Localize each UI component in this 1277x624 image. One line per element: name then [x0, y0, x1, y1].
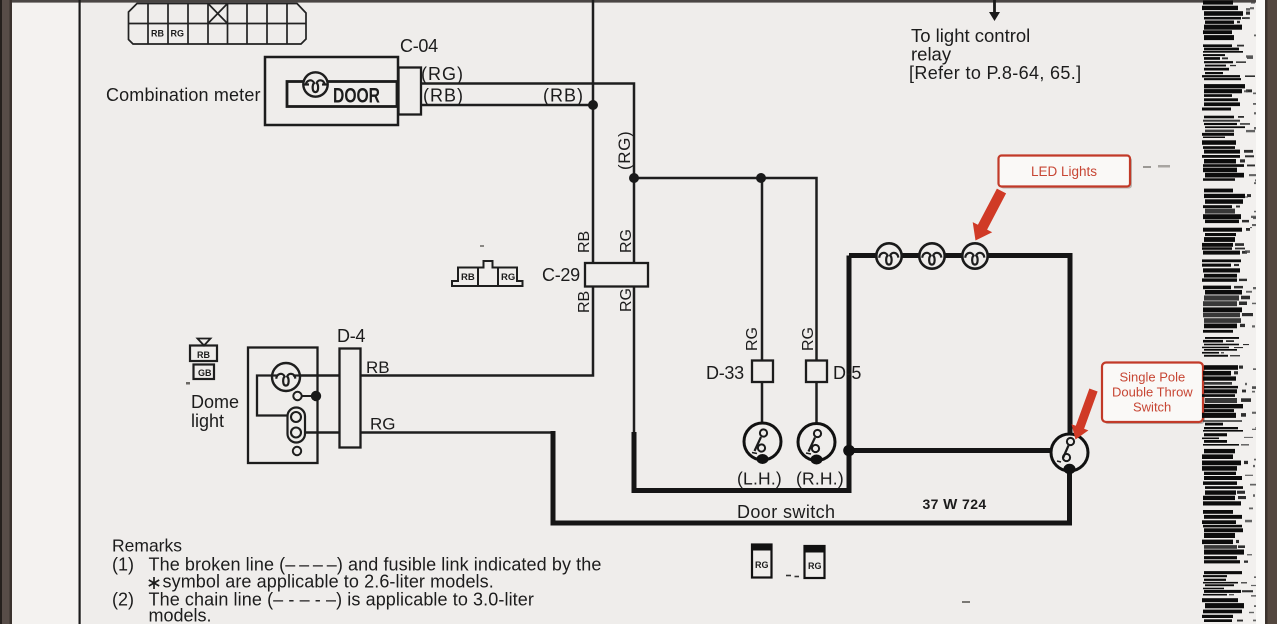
door switch RH: [798, 424, 835, 465]
scan noise strip: [1202, 1, 1262, 623]
LED bulb 1: [876, 243, 901, 268]
wire RG horizontal branch to door switches: [634, 178, 817, 424]
dome light off contact: [293, 447, 301, 455]
door switch LH: [744, 423, 781, 464]
DOOR indicator box: [287, 82, 397, 107]
svg-text:DOOR: DOOR: [333, 85, 380, 108]
node junction SPDT net: [843, 445, 855, 457]
svg-text:RG: RG: [755, 560, 769, 570]
svg-text:GB: GB: [198, 368, 212, 378]
dome light door contact: [293, 392, 301, 400]
stray dashes: [786, 575, 791, 577]
wire thick bottom ground run under door switches: [632, 256, 850, 491]
svg-text:(RB): (RB): [543, 86, 584, 106]
svg-text:RB: RB: [366, 358, 390, 377]
svg-text:37 W 724: 37 W 724: [923, 496, 987, 513]
annotation arrow LED Lights: [973, 189, 1006, 241]
svg-text:light: light: [191, 411, 224, 431]
asterisk symbol: [149, 577, 159, 589]
wire thick RG lower vertical: [632, 432, 637, 491]
dome light box: [248, 348, 318, 464]
svg-text:models.: models.: [149, 606, 212, 624]
svg-text:(L.H.): (L.H.): [737, 469, 782, 489]
svg-text:D-5: D-5: [833, 363, 861, 383]
dome light bulb: [272, 363, 300, 391]
svg-text:Door switch: Door switch: [737, 502, 835, 522]
wire thick top run to LED lights: [849, 256, 1070, 438]
connector RG (bottom left): [751, 544, 773, 578]
LED bulb 3: [962, 243, 987, 268]
svg-text:C-29: C-29: [542, 265, 580, 285]
annotation arrow SPDT: [1072, 389, 1098, 440]
svg-text:RG: RG: [618, 288, 635, 312]
svg-text:(2): (2): [112, 590, 134, 610]
connector D-33: [752, 361, 773, 383]
connector C-29: [585, 263, 648, 287]
svg-text:RB: RB: [576, 291, 593, 313]
dome light switch: [288, 408, 306, 443]
connector icon beside C-29: [452, 261, 523, 286]
svg-text:(RB): (RB): [423, 86, 464, 106]
svg-text:Single Pole: Single Pole: [1120, 370, 1186, 385]
svg-text:RG: RG: [501, 272, 515, 283]
connector RB (dome light): [190, 346, 217, 362]
wire RB from C-04: [421, 104, 593, 107]
svg-text:RB: RB: [576, 231, 593, 253]
node junction LH branch: [756, 173, 766, 183]
bright column near right edge: [1256, 0, 1265, 624]
arrow to light control relay: [993, 0, 996, 13]
svg-text:(RG): (RG): [615, 131, 634, 170]
svg-text:RG: RG: [618, 229, 635, 253]
svg-text:relay: relay: [911, 44, 952, 65]
svg-text:(R.H.): (R.H.): [796, 469, 844, 489]
page frame border line: [79, 0, 81, 624]
wire thick below SPDT to bottom run: [551, 468, 1070, 523]
svg-text:RG: RG: [744, 327, 761, 351]
SPDT switch: [1051, 434, 1088, 474]
wire branch to LH door switch: [761, 178, 764, 429]
svg-text:RG: RG: [800, 327, 817, 351]
wire thick SPDT pole feed: [849, 448, 1052, 453]
wire RG from dome switch to corner: [301, 431, 555, 434]
svg-text:RB: RB: [461, 272, 475, 283]
svg-text:Dome: Dome: [191, 392, 239, 412]
svg-text:D-4: D-4: [337, 326, 365, 346]
wire RG from C-04 to vertical run: [421, 84, 634, 434]
connector triangle above dome light: [198, 339, 211, 346]
connector pin grid (top): [129, 4, 307, 45]
connector D-4: [340, 349, 361, 448]
svg-text:D-33: D-33: [706, 363, 744, 383]
svg-text:Remarks: Remarks: [112, 536, 182, 556]
bulb in combination meter: [303, 72, 327, 96]
svg-text:Combination meter: Combination meter: [106, 85, 261, 105]
connector C-04: [399, 68, 422, 115]
svg-text:RG: RG: [171, 29, 185, 39]
svg-text:C-04: C-04: [400, 36, 438, 56]
svg-text:RG: RG: [370, 415, 396, 434]
connector RG (bottom right): [804, 545, 826, 578]
svg-text:[Refer to P.8-64, 65.]: [Refer to P.8-64, 65.]: [909, 63, 1081, 83]
LED bulb 2: [919, 243, 944, 268]
annotation box LED Lights: [999, 156, 1133, 189]
svg-text:Double Throw: Double Throw: [1112, 385, 1193, 400]
node junction RB/C-04: [588, 100, 598, 110]
svg-text:RB: RB: [151, 29, 164, 39]
left dark bar: [0, 0, 12, 624]
connector D-5: [806, 361, 827, 383]
wire RB vertical from top edge down to D-4: [300, 0, 593, 376]
wire thick RG corner from dome light: [551, 431, 556, 526]
svg-text:LED Lights: LED Lights: [1031, 164, 1097, 179]
svg-text:RG: RG: [808, 561, 822, 571]
connector GB (dome light): [194, 365, 215, 380]
svg-text:symbol are applicable to 2.6-l: symbol are applicable to 2.6-liter model…: [163, 572, 494, 592]
top dark strip: [0, 0, 1277, 3]
annotation box SPDT: [1102, 363, 1205, 425]
svg-text:(RG): (RG): [421, 64, 464, 84]
svg-text:RB: RB: [197, 350, 210, 360]
node junction RG branch: [629, 173, 639, 183]
combination meter box: [265, 57, 398, 125]
wire inside dome light: [257, 376, 288, 416]
svg-text:Switch: Switch: [1133, 400, 1171, 415]
right dark bar: [1265, 0, 1277, 624]
svg-text:(1): (1): [112, 555, 134, 575]
stray scan specks: [1143, 166, 1151, 168]
